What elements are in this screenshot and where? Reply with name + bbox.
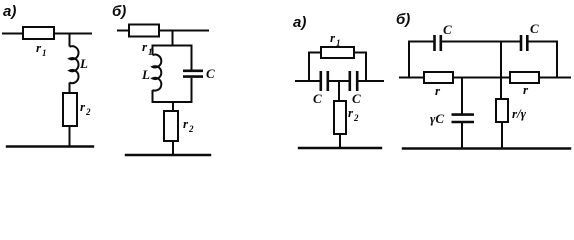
wire bridge top right [354, 52, 366, 54]
wire main middle segment [329, 80, 349, 82]
wire gammaC branch upper [461, 78, 463, 114]
resistor R2 [63, 93, 77, 126]
svg-text:1: 1 [42, 48, 47, 58]
wire main right segment [359, 80, 384, 82]
wire left riser [408, 42, 410, 78]
wire right branch upper [191, 46, 193, 70]
resistor R2 [510, 72, 539, 83]
svg-text:C: C [206, 66, 215, 81]
wire left branch lower [152, 90, 154, 102]
resistor R1 [129, 25, 159, 37]
wire tank bottom bar [153, 101, 192, 103]
svg-text:а): а) [293, 14, 306, 31]
wire bottom rail [126, 154, 210, 156]
svg-text:2: 2 [353, 113, 359, 123]
capacitor gammaC plates [452, 115, 475, 122]
capacitor C1 plates [321, 71, 328, 91]
wire bridge left riser [308, 53, 310, 82]
resistor R1 [321, 47, 354, 58]
wire center vertical upper [500, 42, 502, 100]
svg-text:б): б) [396, 11, 410, 28]
wire bridge right riser [365, 53, 367, 82]
resistor R1 [424, 72, 453, 83]
svg-text:r/γ: r/γ [512, 106, 527, 121]
wire bottom rail [403, 147, 570, 149]
resistor R1 [23, 27, 54, 39]
wire top middle segment [442, 41, 520, 43]
svg-text:б): б) [112, 3, 126, 20]
svg-text:C: C [530, 21, 539, 36]
wire junction down to tank [172, 31, 174, 46]
svg-text:а): а) [3, 3, 16, 20]
wire tank to R2 [172, 102, 174, 111]
wire top left segment [409, 41, 433, 43]
wire R2 to bottom [339, 134, 341, 148]
capacitor C2 plates [521, 35, 527, 51]
svg-text:C: C [313, 91, 322, 106]
wire top right segment [529, 41, 558, 43]
wire shunt down to R2 [338, 81, 340, 101]
wire bottom rail [299, 147, 381, 149]
inductor L [70, 46, 79, 83]
svg-text:r: r [523, 82, 529, 97]
svg-text:1: 1 [336, 38, 341, 48]
wire top horizontal input [3, 33, 91, 35]
capacitor C1 plates [435, 35, 441, 51]
svg-text:2: 2 [188, 124, 194, 134]
wire top horizontal input [118, 30, 208, 32]
wire main left segment [296, 80, 320, 82]
inductor L [153, 55, 162, 91]
wire bridge top left [309, 52, 321, 54]
resistor R2 [164, 111, 178, 141]
svg-text:2: 2 [85, 107, 91, 117]
svg-text:γC: γC [430, 111, 444, 126]
svg-text:L: L [141, 67, 150, 82]
wire center vertical lower [501, 122, 503, 149]
capacitor C plates [183, 71, 203, 77]
node junction top [69, 34, 71, 47]
wire bottom rail [7, 145, 93, 147]
wire R2 to bottom [69, 126, 71, 147]
wire main rail [400, 77, 570, 79]
wire gammaC branch lower [461, 123, 463, 149]
wire right riser [556, 42, 558, 78]
resistor R2 [334, 101, 346, 134]
wire left branch upper [152, 46, 154, 56]
wire L to R2 [69, 83, 71, 94]
capacitor C2 plates [350, 71, 357, 91]
wire tank top bar [153, 45, 192, 47]
resistor R-gamma [496, 99, 508, 122]
svg-text:C: C [352, 91, 361, 106]
svg-text:L: L [79, 56, 88, 71]
wire right branch lower [191, 78, 193, 102]
svg-text:C: C [443, 22, 452, 37]
wire R2 to bottom [172, 141, 174, 155]
svg-text:r: r [435, 83, 441, 98]
